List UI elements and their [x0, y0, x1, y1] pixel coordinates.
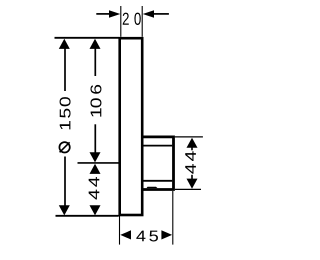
dim 45: left arrow	[120, 230, 131, 239]
dim 150: text digit 0 (rotated)	[60, 97, 71, 106]
dim 44 right: bottom arrow	[187, 179, 198, 189]
dim 44 left: text digit 4 lower (rotated)	[89, 190, 100, 200]
valve body box	[142, 137, 174, 190]
bump on box bottom edge	[147, 187, 158, 188]
dim 150: bottom arrow	[59, 205, 70, 215]
dim 45: right extension line	[172, 191, 174, 245]
dim 150: lower line	[64, 157, 66, 206]
dim 106: bottom arrow	[90, 152, 101, 162]
dim 45: left extension line	[119, 216, 121, 245]
dim 106: lower line	[94, 124, 96, 153]
dim 44 right: text digit 4 lower (rotated)	[185, 164, 196, 174]
dim 44 right: upper stub	[191, 147, 193, 150]
dim 20: left arrow	[109, 10, 120, 18]
dim 20: text digit 2	[123, 13, 129, 25]
dim 20: text digit 0	[134, 13, 140, 25]
dim 44 left: text digit 4 upper (rotated)	[89, 177, 100, 187]
box inner line bottom	[143, 180, 172, 182]
dim 20: left extension line	[120, 6, 122, 37]
dim 44 left: bottom arrow	[90, 205, 101, 215]
dim 44 right: lower stub	[191, 175, 193, 179]
dim 20: right extension line	[141, 6, 143, 37]
dim 150: text digit 5 (rotated)	[60, 109, 71, 118]
dim 44 right: top extension line (box top edge extended)	[175, 136, 203, 138]
dim 106: text digit 1 (rotated)	[91, 108, 102, 116]
dim 20: left leader line	[96, 13, 109, 15]
plate (side view, escutcheon)	[120, 38, 143, 215]
dim 44 right: top arrow	[187, 138, 198, 148]
dim 106: text digit 6 (rotated)	[90, 85, 101, 94]
dim 44 right: bottom extension line (box bottom edge extended)	[175, 188, 201, 190]
dim 150: diameter symbol	[59, 142, 69, 152]
dim 150: upper line	[64, 48, 66, 91]
dim 20: right arrow	[143, 10, 154, 18]
dim 44 right: text digit 4 upper (rotated)	[185, 151, 196, 161]
dim 150: text digit 1 (rotated)	[60, 121, 71, 129]
dim 106: upper line	[94, 48, 96, 76]
dim 45: text digit 5	[149, 231, 158, 242]
dim 106: top arrow	[90, 39, 101, 49]
dim 150: top arrow	[59, 39, 70, 49]
dim 106: text digit 0 (rotated)	[90, 98, 101, 107]
bottom extension line left of plate (plate bottom edge extended)	[56, 215, 119, 217]
top extension line left of plate (plate top edge extended)	[55, 37, 119, 39]
dim 45: text digit 4	[136, 231, 145, 242]
box inner line top	[143, 145, 172, 147]
dim 20: right leader line	[154, 13, 169, 15]
dim 44 left: top arrow	[90, 164, 101, 174]
dim 45: right arrow	[161, 230, 172, 239]
intermediate extension line (valve centerline)	[78, 162, 120, 164]
